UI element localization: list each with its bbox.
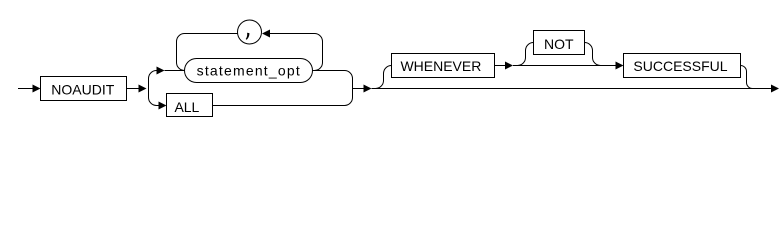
terminal SUCCESSFUL box [624,54,741,78]
svg-text:WHENEVER: WHENEVER [400,58,481,74]
loop left vertical [177,34,185,71]
rejoin S-curve from SUCCESSFUL [741,66,753,89]
loop top wire left [185,33,238,35]
wire start [18,88,33,90]
arrowhead before branch [139,85,147,93]
branch merge vertical [345,71,353,106]
loop comma circle [238,20,262,44]
loop right vertical [315,34,323,71]
svg-text:ALL: ALL [174,99,199,115]
terminal NOT box [534,31,585,55]
wire merge to arrow [353,88,365,90]
loop comma label [246,33,250,40]
terminal WHENEVER box [392,54,495,78]
terminal NOAUDIT box [41,77,127,101]
arrowhead after merge [364,85,372,93]
loop top wire right [270,33,315,35]
arrowhead end [771,85,779,93]
wire into ALL [157,105,159,107]
terminal ALL box [167,94,213,117]
arrowhead into SUCCESSFUL [616,62,624,70]
optional split S-curve into NOT [518,43,534,66]
wire NOT bypass [513,65,616,67]
svg-text:NOT: NOT [544,36,574,52]
optional split S-curve into WHENEVER [376,66,392,89]
arrowhead start [33,85,41,93]
wire WHENEVER exit [495,65,506,67]
arrowhead after WHENEVER [505,62,513,70]
nonterminal statement_opt pill [185,59,313,83]
wire statement_opt exit [313,70,345,72]
wire into statement_opt [165,70,185,72]
wire main bypass [372,88,772,90]
svg-text:NOAUDIT: NOAUDIT [51,82,114,98]
wire NOAUDIT exit [127,88,140,90]
arrowhead into statement_opt path [157,67,165,75]
wire ALL exit [213,105,345,107]
arrowhead into comma (pointing left) [262,30,270,38]
optional rejoin S-curve from NOT [585,43,601,66]
branch split vertical [149,71,157,106]
svg-text:statement_opt: statement_opt [197,63,301,79]
svg-text:SUCCESSFUL: SUCCESSFUL [633,58,727,74]
arrowhead into ALL [159,102,167,110]
